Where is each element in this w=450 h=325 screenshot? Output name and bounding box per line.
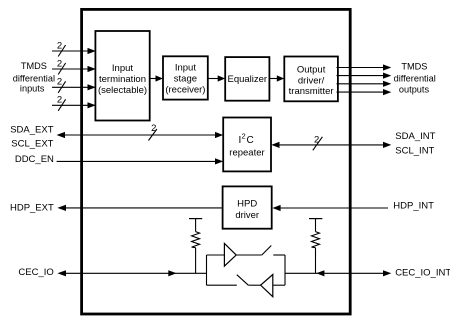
wire: TMDS input pair 2 with bus slash 2 [52, 58, 96, 74]
pull-up resistor R2 (right) with rail bar [309, 219, 322, 274]
svg-text:inputs: inputs [20, 84, 45, 94]
wire: Input stage to Equalizer [208, 75, 225, 81]
label: TMDS differential inputs (left) [13, 61, 55, 94]
wire: I2C repeater to SDA_INT/SCL_INT, bidirectional, slash 2 [271, 134, 391, 150]
switch S1 blade (open, top path) [262, 246, 272, 256]
wire: HDP_INT to HPD driver [272, 205, 388, 211]
wire: Input termination to Input stage [150, 75, 163, 81]
svg-text:SDA_INT: SDA_INT [395, 131, 435, 142]
svg-text:Input: Input [112, 63, 133, 74]
svg-text:Input: Input [175, 62, 196, 73]
block: HPD driver [223, 186, 272, 228]
svg-text:Output: Output [297, 64, 326, 75]
wire: Equalizer to Output driver [269, 75, 284, 81]
svg-text:CEC_IO: CEC_IO [18, 267, 53, 278]
svg-text:HPD: HPD [237, 198, 257, 209]
svg-text:C: C [247, 135, 254, 146]
svg-text:transmitter: transmitter [289, 86, 334, 97]
svg-text:2: 2 [151, 123, 156, 134]
svg-text:2: 2 [57, 95, 62, 106]
svg-text:SCL_EXT: SCL_EXT [11, 138, 53, 149]
svg-text:repeater: repeater [229, 148, 264, 159]
block: I2C repeater [223, 118, 271, 172]
svg-text:TMDS: TMDS [401, 61, 427, 71]
block: Input termination (selectable) U1 [95, 31, 149, 121]
CEC bidirectional switch loop frame [207, 255, 286, 285]
svg-text:DDC_EN: DDC_EN [15, 154, 54, 165]
wire: DDC_EN to I2C repeater [57, 158, 224, 164]
wire: switch S2 to buffer A2 tip stub [248, 284, 260, 286]
wire: TMDS output 2 [337, 73, 392, 79]
svg-text:SCL_INT: SCL_INT [395, 145, 434, 156]
svg-text:differential: differential [13, 73, 55, 83]
svg-text:differential: differential [394, 74, 436, 84]
label: TMDS differential outputs (right) [394, 61, 436, 94]
wire: TMDS output 1 [337, 64, 392, 70]
svg-text:outputs: outputs [399, 85, 430, 95]
svg-text:stage: stage [174, 73, 197, 84]
svg-text:TMDS: TMDS [21, 61, 47, 71]
switch S2 blade (open, bottom path) [237, 275, 249, 286]
wire: switch network to CEC_IO_INT, bidirectional [285, 270, 391, 276]
buffer amplifier A1 (top, right-pointing) [224, 243, 236, 266]
svg-text:SDA_EXT: SDA_EXT [10, 125, 53, 136]
wire: HPD driver to HDP_EXT [57, 205, 222, 211]
block: Input stage (receiver) [163, 56, 208, 99]
pull-up resistor R1 (left) with rail bar [189, 219, 202, 274]
svg-text:driver: driver [235, 210, 259, 221]
svg-text:Equalizer: Equalizer [227, 74, 267, 85]
svg-text:(receiver): (receiver) [165, 84, 205, 95]
wire: TMDS input pair 1 with bus slash 2 [52, 40, 96, 56]
block: Equalizer [225, 57, 269, 101]
switch S1 fixed contact to loop right [273, 254, 285, 256]
buffer amplifier A2 (bottom, left-pointing) [261, 275, 273, 297]
wire: buffer A1 output stub [236, 254, 262, 256]
svg-text:HDP_INT: HDP_INT [393, 201, 434, 212]
svg-text:2: 2 [57, 58, 62, 69]
svg-text:driver/: driver/ [298, 75, 325, 86]
wire: TMDS output 4 [337, 89, 392, 95]
wire: TMDS input pair 4 with bus slash 2 [52, 95, 96, 111]
wire: buffer A2 input from loop right [273, 284, 285, 286]
svg-text:2: 2 [314, 134, 319, 145]
block: Output driver / transmitter [284, 57, 338, 102]
svg-text:CEC_IO_INT: CEC_IO_INT [395, 268, 450, 279]
svg-text:2: 2 [242, 132, 246, 141]
svg-text:termination: termination [99, 74, 146, 85]
svg-text:HDP_EXT: HDP_EXT [10, 203, 54, 214]
svg-text:2: 2 [57, 40, 62, 51]
wire: SDA_EXT/SCL_EXT bus to I2C repeater, bidirectional, slash 2 [57, 123, 224, 140]
wire: TMDS output 3 [337, 81, 392, 87]
svg-text:2: 2 [57, 77, 62, 88]
wire: CEC_IO to switch network, bidirectional [57, 270, 206, 276]
wire: TMDS input pair 3 with bus slash 2 [52, 77, 96, 93]
svg-text:(selectable): (selectable) [98, 85, 147, 96]
outer device boundary box [82, 9, 351, 314]
